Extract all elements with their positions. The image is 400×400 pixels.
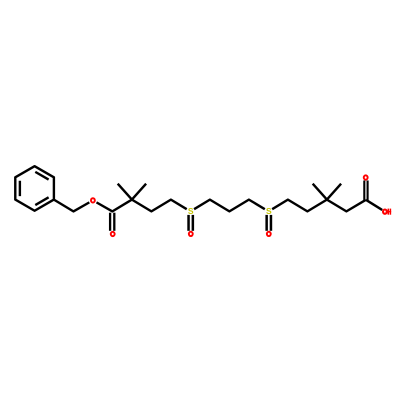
- svg-text:S: S: [188, 206, 194, 216]
- svg-text:S: S: [266, 206, 272, 216]
